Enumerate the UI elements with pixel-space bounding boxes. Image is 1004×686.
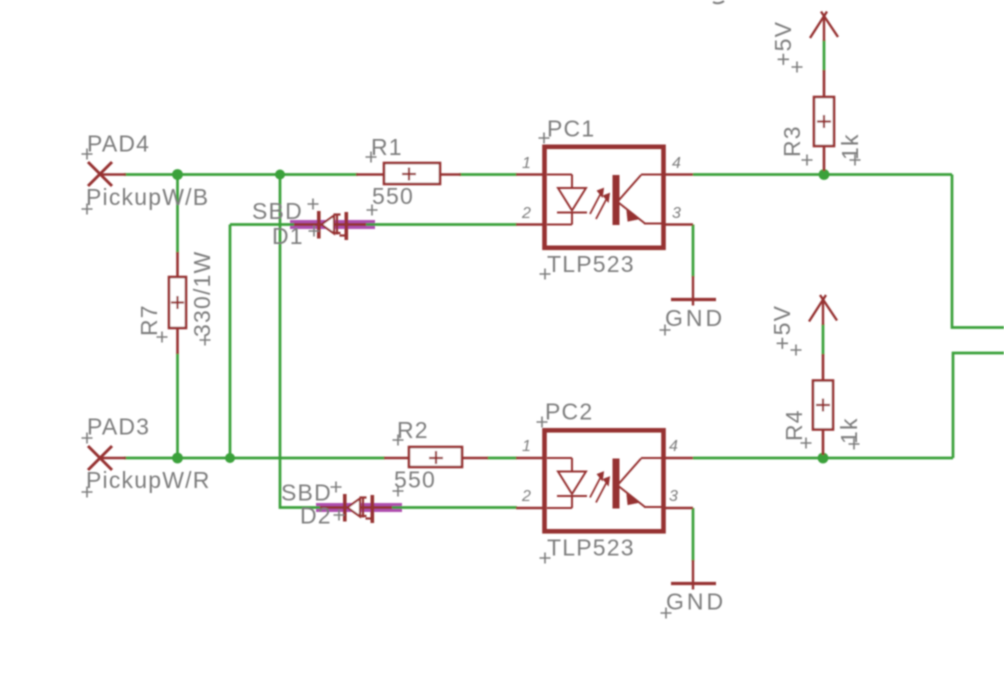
optocoupler PC2 body [545,430,664,531]
svg-text:4: 4 [672,155,681,172]
power +5V symbol bottom [809,295,837,325]
PC1 phototransistor [613,175,663,226]
optocoupler PC1 body [545,147,664,248]
svg-text:TLP523: TLP523 [547,535,635,561]
resistor R2 [384,447,488,467]
PC2 light arrows [590,473,609,503]
origin cross PC2 [537,417,548,428]
wire R3 top from +5V [823,40,826,71]
ground GND2 symbol [671,560,716,590]
resistor R1 [356,163,461,184]
svg-text:3: 3 [672,205,681,222]
origin cross GND2 [661,608,672,619]
wire PC2 pin3 to GND [692,508,695,561]
pad PAD4 X symbol [88,162,126,186]
svg-text:+5V: +5V [769,305,795,350]
origin cross +5V bottom [791,345,802,356]
origin cross TLP523 PC2 [540,553,551,564]
wire D1 row under magenta [292,223,378,226]
origin cross PAD3 [82,433,93,444]
svg-text:+5V: +5V [770,21,796,66]
wire right vertical lower [953,353,1004,458]
svg-text:1: 1 [522,438,531,455]
optocoupler PC1 (TLP523) [516,147,693,248]
svg-text:GND: GND [665,305,725,331]
node PAD3-D1 branch junction [225,453,235,463]
origin cross PAD4 [82,149,93,160]
svg-text:GND: GND [666,589,726,615]
node PAD4-D2 branch junction [275,170,285,180]
origin cross R1 [366,152,377,163]
origin cross 330/1W [200,335,211,346]
origin cross PickupW/R [82,487,93,498]
diode D1 (SBD) [294,211,366,240]
origin cross R4 [801,438,812,449]
svg-text:2: 2 [521,205,531,222]
svg-text:PAD4: PAD4 [87,131,150,157]
origin cross D1 [309,226,320,237]
svg-text:SBD: SBD [252,198,303,224]
origin cross 550 R1 [367,205,378,216]
svg-text:1: 1 [522,155,531,172]
stray label fragment at top edge [713,1,724,3]
diode D2 net highlight (magenta bus) [316,503,402,512]
wire vertical R7 branch lower [176,353,179,458]
origin cross PickupW/B [82,204,93,215]
svg-text:R3: R3 [779,125,805,157]
node R4 output junction [818,453,829,464]
origin cross PC1 [539,133,550,144]
svg-text:PC1: PC1 [547,116,595,142]
svg-text:R1: R1 [371,134,403,160]
wire D1 to PC1 pin2 [378,223,517,226]
svg-text:D1: D1 [272,223,304,249]
wire PAD3 row to R2 [124,457,385,460]
PC2 pin 4 stub [664,457,693,460]
PC2 pin 3 stub [664,507,693,510]
wire D2 to PC2 pin2 [404,506,517,509]
svg-text:R4: R4 [781,409,807,441]
PC1 pin 4 stub [664,173,693,176]
origin cross 1k R3 [850,155,861,166]
PC2 phototransistor [613,458,663,509]
optocoupler PC2 (TLP523) [516,430,693,531]
svg-text:PickupW/R: PickupW/R [86,467,211,493]
svg-text:PAD3: PAD3 [87,414,150,440]
PC2 pin 1 stub [516,457,544,460]
wire R1 to PC1 pin1 [459,173,517,176]
wire PC2 pin4 to right corner [693,457,953,460]
wire green centre through D1 highlight [290,223,375,226]
node PAD4-R7 junction [172,169,183,180]
svg-text:D2: D2 [300,503,332,529]
svg-text:TLP523: TLP523 [547,251,635,277]
svg-text:R2: R2 [397,417,429,443]
wire vertical R7 branch upper [176,175,179,254]
wire PC1 pin4 to right corner [693,173,952,176]
PC2 pin 2 stub [516,507,544,510]
wire R2 to PC2 pin1 [487,457,517,460]
origin cross D2 [334,510,345,521]
PC1 pin 1 stub [516,173,544,176]
svg-text:4: 4 [669,438,678,455]
wire vertical branch to D2 [280,175,316,508]
svg-text:550: 550 [372,183,414,209]
wire PC1 pin3 to GND [692,225,695,278]
svg-text:1k: 1k [836,417,862,444]
PC1 pin 2 stub [516,223,544,226]
resistor R7 [169,252,186,354]
wire PAD4 row to R1 [124,173,358,176]
svg-text:330/1W: 330/1W [189,251,215,337]
resistor R4 [813,354,833,455]
origin cross SBD2 [331,482,342,493]
power +5V symbol top [810,12,838,42]
ground GND1 symbol [671,276,716,306]
svg-text:1k: 1k [837,133,863,160]
origin cross 550 R2 [393,486,404,497]
resistor R3 [814,70,834,171]
PC2 internal LED [547,458,587,508]
origin cross 1k R4 [849,439,860,450]
PC1 internal LED [547,175,587,225]
diode D2 (SBD) [320,494,392,523]
origin cross R7 [157,332,168,343]
diode D1 net highlight (magenta bus) [290,220,375,229]
wire vertical D1 return branch [229,225,232,459]
wire D2 row under magenta [316,506,404,509]
svg-text:3: 3 [669,488,678,505]
wire R4 top from +5V [822,324,825,355]
origin cross R2 [393,435,404,446]
wire green centre through D2 highlight [316,506,402,509]
wire D1 row left [230,223,292,226]
node PAD3-R7 junction [172,453,183,464]
svg-text:PC2: PC2 [545,399,593,425]
origin cross R3 [802,155,813,166]
pad PAD3 X symbol [88,446,126,470]
svg-text:550: 550 [394,467,436,493]
svg-text:PickupW/B: PickupW/B [86,184,209,210]
PC1 pin 3 stub [664,223,693,226]
origin cross GND1 [660,325,671,336]
svg-text:2: 2 [521,488,531,505]
origin cross TLP523 PC1 [540,269,551,280]
svg-text:R7: R7 [136,304,162,336]
PC1 light arrows [590,189,609,219]
origin cross SBD1 [308,199,319,210]
wire right vertical upper [952,175,1004,328]
origin cross +5V top [792,62,803,73]
node R3 output junction [819,169,830,180]
